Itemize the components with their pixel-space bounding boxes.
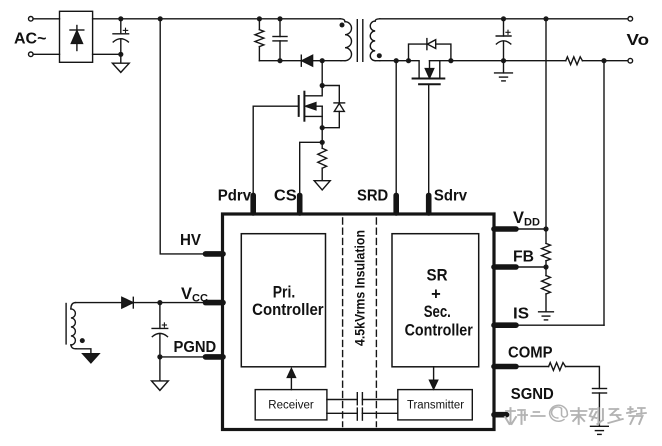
wire primary winding bottom to fet drain [321, 61, 323, 86]
node IS takeoff [601, 58, 606, 63]
wire coupling bottom right [362, 412, 397, 414]
aux winding core [65, 304, 67, 344]
svg-text:+: + [431, 286, 441, 304]
pin COMP stub [494, 364, 516, 370]
SR Sec controller box [392, 234, 479, 367]
svg-text:Transmitter: Transmitter [407, 400, 464, 412]
wire bulk cap to ground [120, 54, 122, 63]
svg-text:Receiver: Receiver [268, 400, 314, 412]
wire snubber bottom [259, 60, 301, 62]
node SR fet drain [406, 58, 411, 63]
wire SR source to output cap [451, 60, 504, 62]
node output cap bottom [501, 58, 506, 63]
transistor Q2 SR mosfet [409, 61, 451, 85]
svg-text:FB: FB [513, 249, 534, 266]
capacitor isolation top [357, 393, 362, 405]
capacitor isolation bottom [357, 408, 362, 420]
node VDD divider [543, 226, 548, 231]
bridge rectifier BR1 diode [70, 26, 84, 51]
wire coupling bottom left [327, 412, 357, 414]
AC input terminal top [29, 17, 34, 22]
pin SGND stub [494, 412, 507, 418]
node bulk cap top [118, 16, 123, 21]
node CS tap [320, 140, 325, 145]
pin Sdrv stub [426, 195, 432, 213]
transistor Q1 primary mosfet [299, 86, 323, 128]
resistor R2 output sense [566, 57, 583, 65]
node VDD takeoff top rail [543, 16, 548, 21]
wire output cap to ground [503, 61, 505, 73]
ground bulk cap [112, 63, 129, 72]
snubber nodes [257, 16, 262, 21]
Pri controller box [241, 234, 325, 367]
pin IS stub [494, 322, 516, 328]
wire FB pin [516, 266, 546, 268]
capacitor C5 comp [593, 389, 607, 427]
resistor R5 FB upper [542, 229, 551, 267]
Transmitter box [398, 390, 473, 420]
ground aux solid [83, 354, 99, 363]
wire IS feed vertical [603, 61, 605, 326]
diode body of Q2 [409, 39, 451, 61]
svg-text:PGND: PGND [174, 339, 217, 356]
node VCC cap top [157, 300, 162, 305]
wire SRD node to SR fet drain node [396, 60, 408, 62]
svg-text:AC~: AC~ [14, 31, 46, 48]
node FB [543, 264, 548, 269]
resistor R1 snubber [255, 19, 264, 61]
ground FB earth [539, 312, 554, 320]
wire comp resistor to cap [566, 367, 600, 389]
wire sense resistor to Vo- [582, 60, 628, 62]
pin Pdrv stub [250, 195, 256, 213]
wire PGND to ground [159, 357, 161, 381]
wire PGND [160, 356, 205, 358]
wire gate of Q1 [253, 106, 299, 195]
pin SRD stub [393, 195, 399, 213]
capacitor C2 vcc [152, 303, 168, 357]
node Q1 source [320, 125, 325, 130]
node snubber cap bottom [277, 58, 282, 63]
ground PGND [152, 381, 169, 391]
insulation dashed line left [342, 218, 344, 427]
svg-text:SGND: SGND [511, 386, 554, 403]
wire aux top to diode [76, 302, 122, 304]
Vo- terminal [628, 58, 633, 63]
wire COMP pin to resistor [516, 366, 549, 368]
svg-text:COMP: COMP [508, 344, 553, 361]
wire clamp node to winding [322, 60, 341, 62]
ground output earth [495, 73, 513, 81]
IC U1 body [223, 214, 495, 430]
svg-text:SRD: SRD [357, 188, 388, 205]
svg-text:Controller: Controller [405, 321, 474, 339]
wire bridge to bulk cap bottom [93, 53, 121, 55]
wire SRD vertical [395, 61, 397, 195]
arrow receiver to pri controller [287, 369, 295, 390]
wire IS pin [516, 324, 604, 326]
capacitor C4 output electrolytic [496, 19, 511, 61]
aux winding dot [80, 338, 85, 343]
transformer T1 secondary winding [370, 19, 380, 61]
svg-text:SR: SR [427, 266, 448, 284]
wire HV vertical [160, 19, 205, 254]
node output cap top [501, 16, 506, 21]
label SR Sec Controller [405, 266, 474, 339]
transformer T1 primary dot [340, 23, 345, 28]
wire source to CS node [321, 128, 323, 143]
pin VDD stub [494, 226, 516, 232]
wire bridge to bulk cap top [93, 18, 121, 20]
label Pri Controller [252, 284, 324, 319]
node HV takeoff [158, 16, 163, 21]
svg-text:Sdrv: Sdrv [434, 188, 467, 205]
diode D3 vcc rectifier [122, 297, 134, 308]
wire aux bottom to ground [76, 349, 91, 354]
transformer T1 core [357, 20, 363, 62]
wire VDD pin to divider [516, 228, 546, 230]
wire secondary bottom to SRD node [380, 60, 396, 62]
pin VCC stub [206, 300, 224, 306]
svg-text:IS: IS [513, 306, 529, 323]
wire coupling top left [327, 399, 357, 401]
node SRD [394, 58, 399, 63]
wire AC bottom to bridge [33, 53, 59, 55]
inductor L1 aux winding [71, 303, 76, 349]
pin PGND stub [206, 354, 224, 360]
svg-text:Sec.: Sec. [424, 303, 451, 321]
wire top rail secondary [380, 18, 628, 20]
pin HV stub [206, 251, 224, 257]
node VCC cap bottom [157, 354, 162, 359]
resistor R6 FB lower [542, 267, 551, 312]
diode body of Q1 [322, 86, 344, 128]
wire coupling top right [362, 399, 397, 401]
pin FB stub [494, 264, 516, 270]
wire VDD feed vertical [545, 19, 547, 229]
ground COMP earth [591, 426, 609, 434]
resistor R7 comp [549, 363, 566, 371]
wire CS tap to CS pin [300, 142, 323, 195]
bridge rectifier BR1 body [60, 11, 93, 62]
wire diode to VCC pin [133, 302, 205, 304]
svg-text:Controller: Controller [252, 301, 324, 319]
svg-text:Pri.: Pri. [273, 284, 296, 302]
svg-text:Pdrv: Pdrv [218, 188, 251, 205]
svg-text:4.5kVrms Insulation: 4.5kVrms Insulation [353, 230, 368, 346]
wire output bottom rail to sense resistor [504, 60, 566, 62]
ground current sense [314, 181, 330, 190]
wire AC top to bridge [33, 18, 59, 20]
Vo+ terminal [628, 17, 633, 22]
capacitor C1 bulk electrolytic [113, 19, 129, 55]
AC input terminal bottom [29, 52, 34, 57]
arrow sec controller to transmitter [430, 367, 438, 389]
node fet drain / body diode [320, 83, 325, 88]
node SR fet source [448, 58, 453, 63]
node primary winding bottom [320, 58, 325, 63]
watermark zhihu [505, 405, 646, 424]
transformer T1 primary winding [340, 19, 352, 61]
Receiver box [255, 390, 327, 420]
capacitor C3 snubber [273, 19, 287, 61]
insulation dashed line right [375, 218, 377, 427]
svg-text:Vo: Vo [627, 32, 650, 49]
node snubber cap top [277, 16, 282, 21]
wire Sdrv gate vertical [428, 84, 430, 195]
resistor R4 current sense [318, 142, 327, 180]
svg-text:CS: CS [274, 188, 297, 205]
node bulk cap bottom [118, 52, 123, 57]
svg-text:HV: HV [180, 232, 201, 249]
pin CS stub [297, 195, 303, 213]
transformer T1 secondary dot [377, 53, 382, 58]
wire top rail primary [121, 18, 341, 20]
diode D1 clamp [301, 55, 322, 66]
